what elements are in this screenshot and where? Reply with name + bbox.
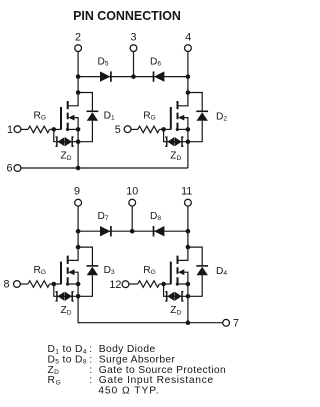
wire Q4 source down to pin 7 rail bbox=[187, 284, 189, 323]
terminal pin 12 bbox=[109, 279, 129, 291]
wire pin 9 to Q3 drain node bbox=[77, 206, 79, 247]
terminal pin 10 bbox=[126, 186, 138, 207]
body diode D1 bbox=[78, 93, 115, 142]
terminal pin 6 bbox=[6, 163, 20, 175]
wire pin 1 to resistor bbox=[21, 128, 28, 130]
resistor RG (Q1 gate) bbox=[28, 110, 50, 132]
wire resistor to Q3 gate node bbox=[50, 283, 54, 285]
transistor Q3 (left bottom MOSFET) bbox=[54, 247, 78, 286]
svg-text:ZD: ZD bbox=[61, 305, 72, 316]
transistor Q1 (left top MOSFET) bbox=[54, 92, 78, 131]
svg-text:2: 2 bbox=[75, 32, 81, 44]
node junction dots (top circuit) bbox=[52, 74, 191, 170]
terminal pin 11 bbox=[181, 186, 192, 207]
svg-text:RG: RG bbox=[34, 110, 47, 121]
wire Q1 source down to pin 6 rail bbox=[77, 129, 79, 168]
svg-text:PIN CONNECTION: PIN CONNECTION bbox=[73, 8, 181, 23]
wire pin 10 stub to surge rail bbox=[131, 206, 133, 231]
svg-text:6: 6 bbox=[6, 163, 12, 175]
wire pin 7 source rail bbox=[78, 322, 223, 324]
wire gate node down to zener ZD (Q2) bbox=[164, 129, 188, 141]
terminal pin 8 bbox=[3, 279, 20, 291]
wire pin 8 to resistor bbox=[20, 283, 28, 285]
terminal pin 5 bbox=[115, 124, 131, 136]
wire surge rail (pin9-pin10-pin11) bbox=[78, 230, 188, 232]
body diode D2 bbox=[188, 93, 227, 142]
wire pin 3 stub to surge rail bbox=[133, 51, 135, 76]
svg-text:5: 5 bbox=[115, 124, 121, 136]
svg-text:ZD: ZD bbox=[170, 305, 181, 316]
surge absorber D5 bbox=[98, 56, 111, 81]
wire pin 2 to Q1 drain node bbox=[77, 51, 79, 92]
wire Q2 source down to pin 6 rail bbox=[187, 129, 189, 168]
body diode D4 bbox=[188, 247, 227, 296]
terminal pin 2 bbox=[75, 32, 82, 52]
zener pair ZD (Q4 gate protection) bbox=[165, 292, 183, 317]
svg-text:D7: D7 bbox=[98, 211, 109, 222]
body diode D3 bbox=[78, 247, 115, 296]
wire resistor to Q4 gate node bbox=[159, 283, 163, 285]
wire pin 6 source rail bbox=[21, 167, 188, 169]
transistor Q2 (right top MOSFET) bbox=[164, 92, 188, 131]
wire gate node down to zener ZD (Q3) bbox=[54, 284, 78, 296]
wire pin 11 to Q4 drain node bbox=[187, 206, 189, 247]
terminal pin 3 bbox=[130, 32, 137, 52]
svg-text:D8: D8 bbox=[150, 211, 161, 222]
wire pin 4 to Q2 drain node bbox=[187, 51, 189, 92]
svg-text:D3: D3 bbox=[104, 265, 115, 276]
zener pair ZD (Q2 gate protection) bbox=[165, 137, 183, 162]
svg-text:RG: RG bbox=[34, 265, 47, 276]
wire gate node down to zener ZD (Q4) bbox=[164, 284, 188, 296]
svg-text:ZD: ZD bbox=[170, 151, 181, 162]
svg-text:ZD: ZD bbox=[61, 151, 72, 162]
wire Q3 source down to pin 7 rail bbox=[78, 284, 80, 323]
svg-text:10: 10 bbox=[126, 186, 138, 198]
svg-text:8: 8 bbox=[3, 279, 9, 291]
wire pin 5 to resistor bbox=[131, 128, 138, 130]
svg-text:12: 12 bbox=[109, 279, 121, 291]
wire gate node down to zener ZD (Q1) bbox=[54, 129, 78, 141]
wire resistor to Q2 gate node bbox=[159, 128, 163, 130]
surge absorber D8 bbox=[150, 211, 164, 236]
surge absorber D6 bbox=[150, 56, 164, 81]
terminal pin 9 bbox=[74, 186, 82, 207]
svg-text:4: 4 bbox=[185, 32, 191, 44]
svg-text:RG: RG bbox=[143, 265, 156, 276]
wire pin 12 to resistor bbox=[129, 283, 138, 285]
transistor Q4 (right bottom MOSFET) bbox=[164, 247, 188, 286]
zener pair ZD (Q3 gate protection) bbox=[56, 292, 74, 317]
svg-text:3: 3 bbox=[130, 32, 136, 44]
resistor RG (Q4 gate) bbox=[138, 265, 160, 287]
svg-text:D5: D5 bbox=[98, 56, 109, 67]
svg-text:450 Ω TYP.: 450 Ω TYP. bbox=[98, 386, 159, 397]
node junction dots (bottom circuit) bbox=[52, 229, 191, 325]
wire surge rail (pin2-pin3-pin4) bbox=[78, 76, 188, 78]
svg-text:7: 7 bbox=[233, 318, 239, 330]
svg-text:RG: RG bbox=[143, 110, 156, 121]
svg-text:D2: D2 bbox=[216, 111, 227, 122]
svg-text:D6: D6 bbox=[150, 56, 161, 67]
terminal pin 1 bbox=[7, 124, 21, 136]
svg-text:D4: D4 bbox=[216, 266, 227, 277]
terminal pin 4 bbox=[185, 32, 192, 52]
svg-text:9: 9 bbox=[74, 186, 80, 198]
zener pair ZD (Q1 gate protection) bbox=[56, 137, 74, 162]
wire resistor to Q1 gate node bbox=[50, 128, 54, 130]
terminal pin 7 bbox=[223, 318, 239, 330]
resistor RG (Q3 gate) bbox=[28, 265, 50, 287]
svg-text:11: 11 bbox=[181, 186, 192, 198]
svg-text:1: 1 bbox=[7, 124, 13, 136]
svg-text:D1: D1 bbox=[104, 110, 115, 121]
resistor RG (Q2 gate) bbox=[138, 110, 160, 132]
surge absorber D7 bbox=[98, 211, 111, 236]
